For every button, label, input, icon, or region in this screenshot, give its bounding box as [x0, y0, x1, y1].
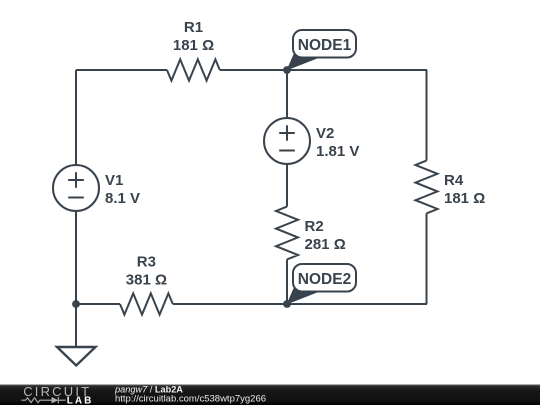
svg-text:R1: R1 — [184, 19, 203, 36]
wire: middle branch from V2 down to R2 — [286, 165, 288, 207]
wire: ground stem — [75, 304, 77, 347]
svg-text:381 Ω: 381 Ω — [126, 272, 167, 289]
voltage source V2 — [264, 118, 310, 164]
svg-text:http://circuitlab.com/c538wtp7: http://circuitlab.com/c538wtp7yg266 — [115, 394, 266, 405]
wire: right vertical upper segment — [426, 70, 428, 161]
wire: top wire right segment — [220, 69, 427, 71]
node NODE2 flag callout — [287, 264, 357, 305]
resistor R4 — [416, 161, 438, 214]
label V2 value — [316, 125, 359, 160]
label R3 value — [126, 254, 167, 289]
svg-text:V1: V1 — [105, 172, 123, 189]
resistor R3 — [120, 293, 173, 314]
svg-text:LAB: LAB — [67, 396, 94, 405]
wire: top wire with resistor R1 body from left corner to right corner — [76, 69, 167, 71]
svg-text:281 Ω: 281 Ω — [305, 236, 346, 253]
node B junction dot (NODE2) — [283, 300, 291, 308]
svg-text:R3: R3 — [137, 254, 156, 271]
label R2 value — [305, 218, 346, 253]
wire: bottom wire left stub — [76, 303, 120, 305]
label R1 value — [173, 19, 214, 54]
resistor R1 — [167, 59, 220, 80]
junction dot at ground tee — [72, 300, 80, 308]
svg-text:R2: R2 — [305, 218, 324, 235]
svg-text:NODE2: NODE2 — [298, 271, 351, 288]
ground — [57, 347, 96, 366]
resistor R2 — [276, 207, 298, 260]
wire: left vertical lower segment — [75, 212, 77, 304]
svg-text:8.1 V: 8.1 V — [105, 190, 140, 207]
node A junction dot (NODE1) — [283, 66, 291, 74]
CircuitLab logo resistor-diode glyph — [22, 397, 66, 404]
svg-text:181 Ω: 181 Ω — [173, 37, 214, 54]
label R4 value — [444, 172, 485, 207]
node NODE1 flag callout — [287, 30, 357, 71]
svg-text:NODE1: NODE1 — [298, 37, 352, 54]
wire: right vertical lower segment — [426, 213, 428, 304]
label V1 value — [105, 172, 140, 207]
wire: middle branch from R2 down to node B — [286, 259, 288, 304]
svg-text:181 Ω: 181 Ω — [444, 190, 485, 207]
svg-text:R4: R4 — [444, 172, 464, 189]
wire: bottom wire right segment — [173, 303, 427, 305]
svg-text:V2: V2 — [316, 125, 334, 142]
voltage source V1 — [53, 165, 99, 211]
svg-text:1.81 V: 1.81 V — [316, 143, 359, 160]
wire: left vertical upper segment — [75, 70, 77, 164]
wire: middle branch from node A down to V2 — [286, 70, 288, 117]
